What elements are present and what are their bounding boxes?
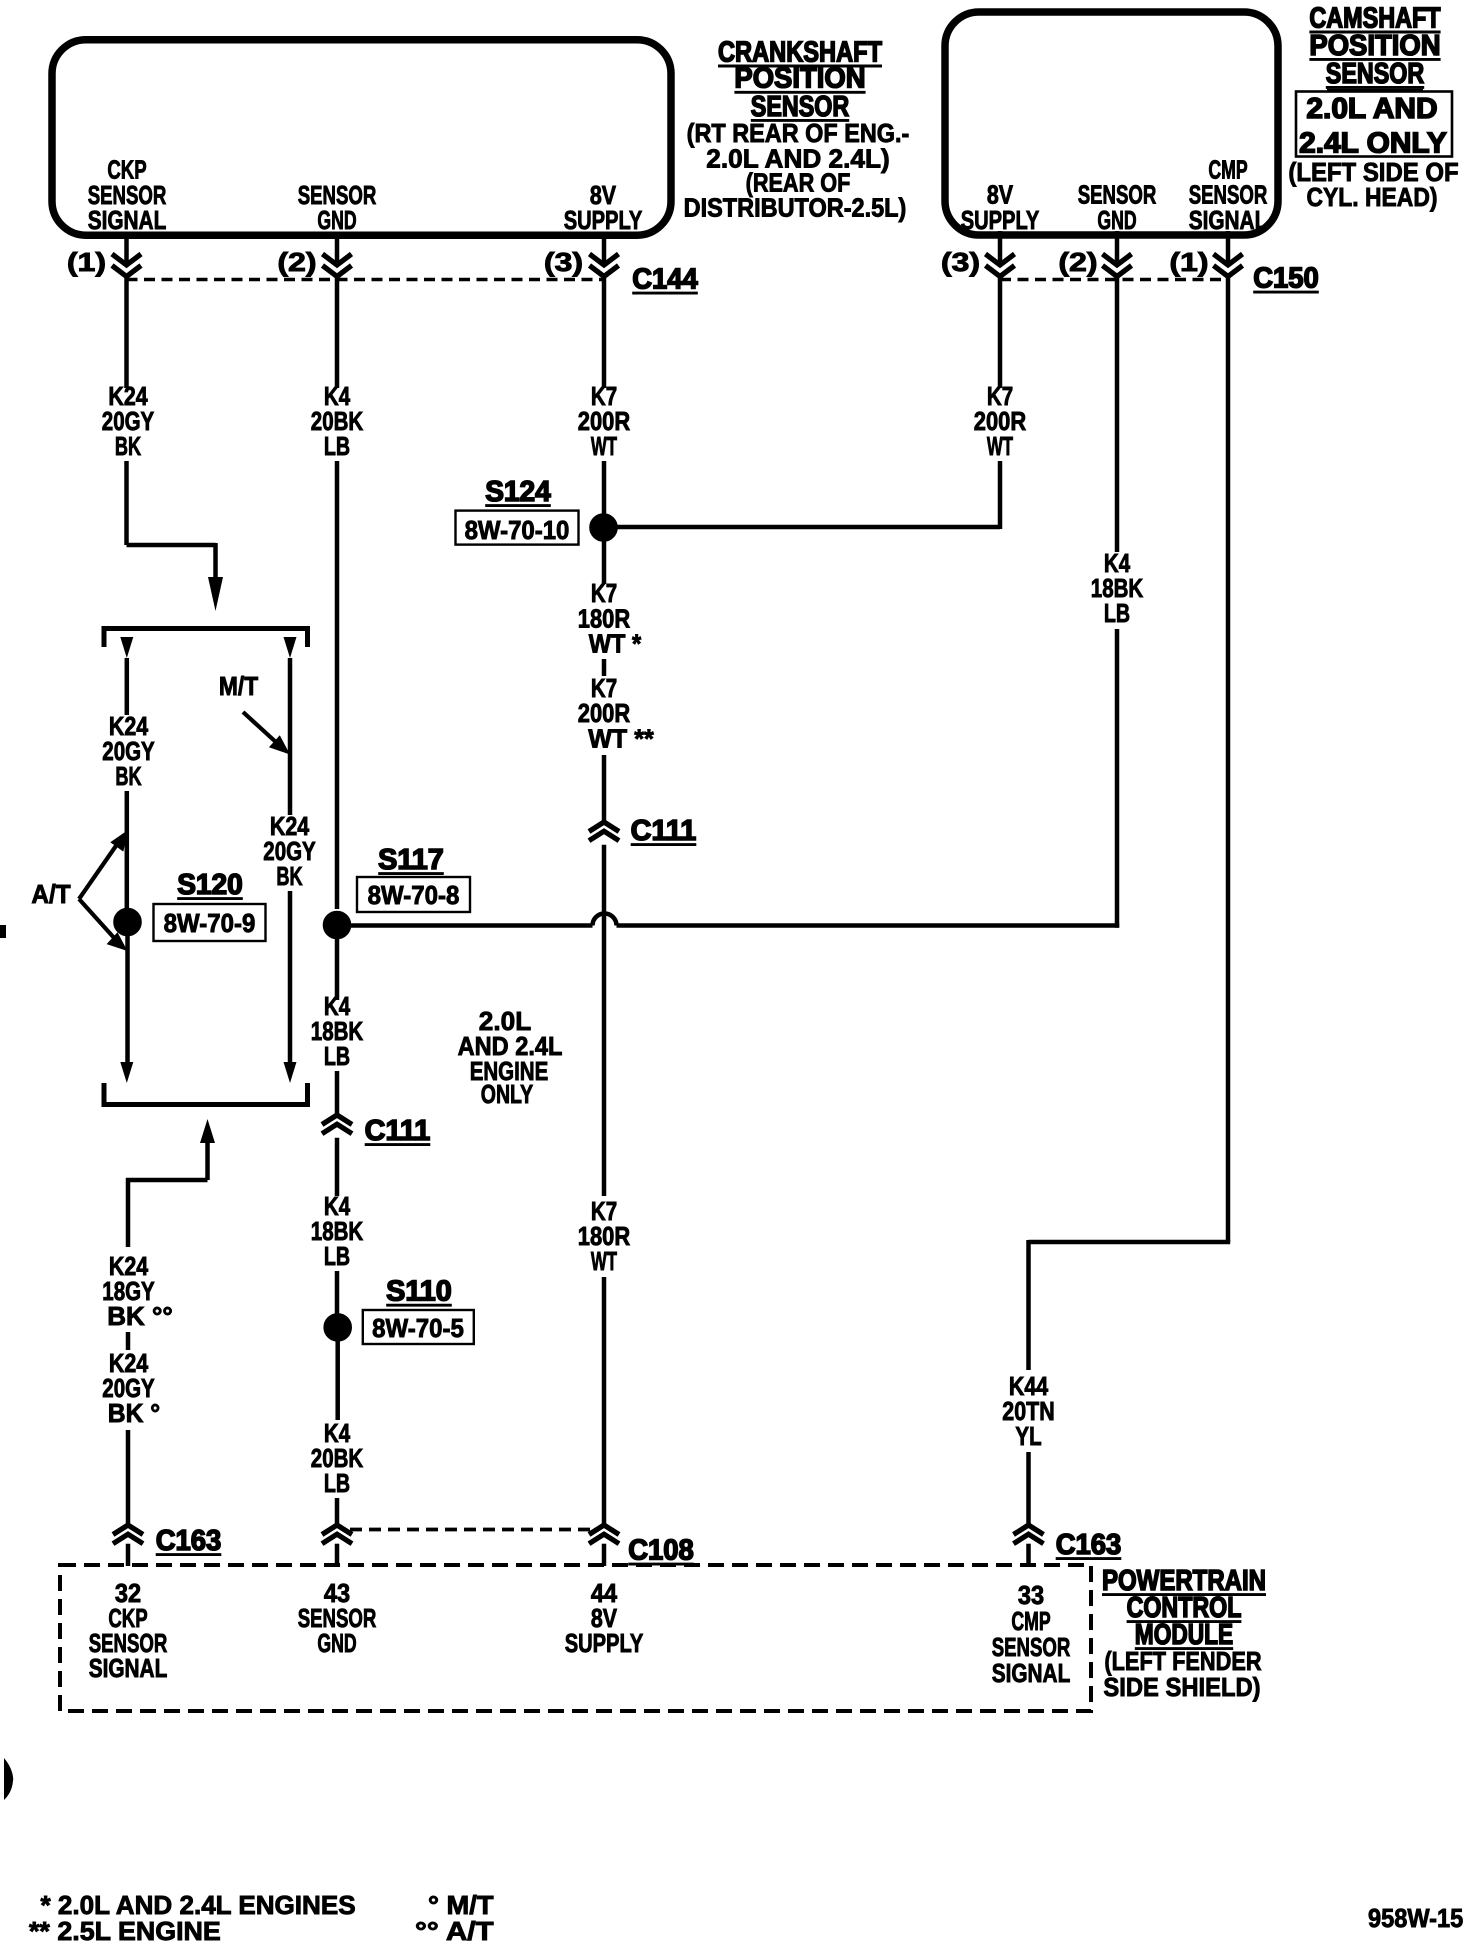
splice S110 [324,1276,474,1344]
sheet number 958W-15 [1368,1903,1463,1933]
svg-text:LB: LB [324,1041,350,1071]
svg-text:WT: WT [591,431,617,461]
wire K4 18BK LB below S117 [311,939,364,1115]
svg-text:SUPPLY: SUPPLY [961,205,1040,235]
svg-text:SUPPLY: SUPPLY [564,205,643,235]
svg-text:C111: C111 [365,1115,431,1147]
wire K4 18BK LB to S110 [311,1138,364,1314]
crankshaft position sensor label [684,36,910,222]
camshaft position sensor label [1288,2,1458,212]
svg-text:SIDE SHIELD): SIDE SHIELD) [1103,1672,1260,1702]
svg-text:LB: LB [324,1468,350,1498]
svg-text:C150: C150 [1253,263,1319,295]
footnotes [29,1890,494,1946]
wire S124 to C150 8V supply [617,277,1026,529]
wire K24 20GY BK (CKP sensor signal) [102,277,223,611]
svg-text:(2): (2) [277,247,316,277]
svg-text:LB: LB [324,1241,350,1271]
wire K44 20TN YL (CMP sensor signal) [1002,277,1230,1525]
wire K24 18GY BK / 20GY BK to PCM [102,1178,172,1525]
svg-text:SIGNAL: SIGNAL [1189,205,1268,235]
svg-text:WT *: WT * [589,629,642,659]
wire K7 180R WT to PCM [578,845,631,1525]
branch bracket bottom [104,1062,308,1180]
svg-text:SIGNAL: SIGNAL [88,205,167,235]
svg-text:WT: WT [591,1246,617,1276]
svg-text:8W-70-8: 8W-70-8 [368,880,460,910]
wire K4 18BK LB from C150 [1091,277,1144,628]
connector C111 middle [322,1115,430,1147]
svg-text:C163: C163 [156,1525,222,1557]
note 2.0L 2.4L engine only [458,1006,563,1109]
svg-text:DISTRIBUTOR-2.5L): DISTRIBUTOR-2.5L) [684,193,907,223]
svg-text:BK °: BK ° [108,1398,160,1428]
connector C108 [322,1525,694,1567]
svg-text:** 2.5L ENGINE: ** 2.5L ENGINE [29,1916,221,1946]
wire S117 to C150 sensor gnd [348,629,1119,928]
branch bracket top [104,629,308,659]
svg-text:LB: LB [1104,598,1130,628]
svg-text:GND: GND [1097,205,1136,235]
svg-text:ONLY: ONLY [481,1079,533,1109]
M/T label arrow [219,671,290,755]
svg-text:BK: BK [115,431,141,461]
connector C111 right [589,815,696,847]
wire K7 180R WT / 200R WT to C111 [578,541,655,822]
scan artifact marks [0,925,13,1800]
splice S120 [114,869,266,941]
splice S117 [323,844,470,939]
svg-text:C108: C108 [628,1535,694,1567]
svg-text:8W-70-10: 8W-70-10 [465,515,570,545]
svg-text:S120: S120 [177,869,243,901]
svg-text:GND: GND [317,205,356,235]
svg-text:S117: S117 [378,844,444,876]
camshaft position sensor box [945,12,1278,235]
svg-text:8W-70-9: 8W-70-9 [164,908,256,938]
wire K24 20GY BK (M/T branch) [263,658,315,1062]
svg-text:BK °°: BK °° [107,1301,173,1331]
svg-text:SUPPLY: SUPPLY [565,1628,644,1658]
svg-text:A/T: A/T [31,879,70,909]
wire K24 20GY BK (A/T branch) [102,658,154,908]
wire K24 18GY BK below S120 [125,936,130,1062]
svg-text:YL: YL [1015,1421,1041,1451]
svg-text:C163: C163 [1056,1529,1122,1561]
svg-text:(1): (1) [67,247,106,277]
svg-text:BK: BK [276,861,302,891]
powertrain control module label [1102,1565,1266,1702]
svg-text:S124: S124 [485,476,551,508]
wire K4 20BK LB (sensor ground) [311,277,364,909]
svg-text:SIGNAL: SIGNAL [992,1658,1071,1688]
crankshaft position sensor box [52,40,671,236]
splice S124 [456,476,618,545]
svg-text:958W-15: 958W-15 [1368,1903,1463,1933]
svg-text:2.0L AND: 2.0L AND [1306,93,1437,125]
svg-text:LB: LB [324,431,350,461]
connector C163 right [1014,1525,1122,1566]
connector C163 left [113,1525,221,1566]
svg-text:SENSOR: SENSOR [1326,58,1424,90]
svg-text:BK: BK [115,761,141,791]
svg-text:(3): (3) [544,247,583,277]
svg-text:GND: GND [317,1628,356,1658]
svg-text:(1): (1) [1169,247,1208,277]
svg-text:WT **: WT ** [588,724,654,754]
wire K7 200R WT (8V supply) [578,277,631,514]
svg-text:M/T: M/T [219,671,258,701]
svg-text:WT: WT [987,431,1013,461]
connector C144 [67,235,698,296]
svg-text:(2): (2) [1058,247,1097,277]
svg-text:C111: C111 [631,815,697,847]
svg-text:CYL. HEAD): CYL. HEAD) [1307,182,1438,212]
svg-text:SIGNAL: SIGNAL [89,1653,168,1683]
svg-text:C144: C144 [632,264,698,296]
powertrain control module box [60,1565,1091,1711]
svg-text:2.4L ONLY: 2.4L ONLY [1299,128,1447,160]
wire K4 20BK LB to PCM [311,1341,364,1525]
svg-text:S110: S110 [386,1276,452,1308]
connector C150 [941,231,1319,295]
A/T label arrows [31,830,128,951]
svg-text:8W-70-5: 8W-70-5 [372,1313,464,1343]
svg-text:(3): (3) [941,247,980,277]
svg-text:°° A/T: °° A/T [415,1916,494,1946]
